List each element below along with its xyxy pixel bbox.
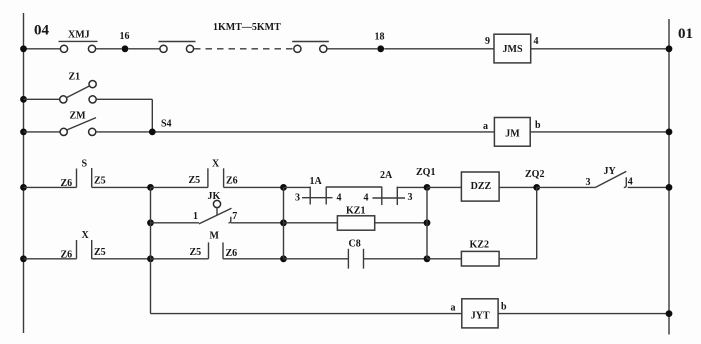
svg-text:16: 16 [120, 31, 130, 42]
svg-text:X: X [212, 159, 220, 170]
wire terminal X2 to junction [92, 258, 151, 260]
switch JK (rotary, pins 1,7) [193, 191, 237, 224]
svg-text:DZZ: DZZ [471, 181, 492, 192]
junction row6 x283 [280, 255, 287, 262]
svg-text:1: 1 [193, 211, 198, 222]
svg-text:Z5: Z5 [94, 247, 106, 258]
relay coil JM [494, 118, 530, 147]
wire junction to terminal M [151, 258, 209, 260]
connector 1A (pins 3,4) [295, 176, 342, 205]
wire junction to terminal X [151, 186, 208, 188]
svg-text:X: X [82, 230, 90, 241]
junction right bus row7 [666, 310, 673, 317]
svg-text:S4: S4 [161, 119, 172, 130]
wire dashed between KMT contacts [194, 48, 293, 50]
wire JK to junction [231, 222, 285, 224]
svg-text:b: b [535, 120, 541, 131]
wire vertical x283 rows4-6 [283, 187, 285, 258]
junction left bus row6 [20, 255, 27, 262]
switch ZM (knife switch open) [60, 111, 96, 136]
wire junction to resistor KZ1 [284, 222, 338, 224]
junction left bus row4 [20, 184, 27, 191]
relay coil DZZ [461, 172, 499, 201]
svg-text:S: S [82, 159, 88, 170]
connector 2A (pins 4,3) [364, 170, 413, 205]
wire bridge 1A to 2A [326, 186, 382, 188]
wire 2A to node ZQ1 [397, 186, 427, 188]
wire 5KMT to node 18 [327, 48, 377, 50]
junction left bus row1 [20, 45, 27, 52]
wire row2: bus to Z1 [24, 98, 60, 100]
relay coil JMS [494, 34, 531, 63]
left bus 04 [23, 13, 25, 333]
right bus 01 [668, 19, 670, 335]
pin 9 [485, 36, 490, 47]
svg-text:4: 4 [534, 36, 539, 47]
svg-text:ZQ1: ZQ1 [416, 167, 435, 178]
terminal X2 (Z6/Z5 plug) [61, 230, 106, 261]
junction left bus row2 [20, 96, 27, 103]
wire row3: bus to ZM [24, 131, 61, 133]
relay coil JYT [462, 299, 498, 328]
terminal X (Z5/Z6 plug) [189, 159, 238, 188]
svg-text:JYT: JYT [471, 311, 490, 322]
svg-text:01: 01 [678, 26, 693, 42]
resistor KZ1 [337, 206, 374, 231]
svg-text:KZ2: KZ2 [470, 240, 489, 251]
wire row5: junction to JK [151, 222, 199, 224]
junction row4 x283 [280, 184, 287, 191]
wire KZ2 to corner [499, 258, 537, 260]
wire corner down to S4 [151, 99, 153, 132]
wire JY to right bus [628, 186, 669, 188]
svg-text:Z5: Z5 [190, 247, 202, 258]
svg-text:C8: C8 [349, 239, 361, 250]
svg-text:Z6: Z6 [226, 248, 238, 259]
wire terminal S to junction [92, 186, 151, 188]
terminal M (Z5/Z6 plug) [190, 230, 238, 258]
label node 01 [678, 26, 693, 42]
svg-text:04: 04 [34, 23, 50, 39]
junction right bus row1 [666, 45, 673, 52]
svg-text:XMJ: XMJ [68, 30, 90, 41]
wire junction to connector 1A [284, 186, 311, 188]
svg-text:JY: JY [604, 166, 617, 177]
wire ZM to relay JM [96, 131, 495, 133]
junction row6 x427 [424, 255, 431, 262]
pin b [535, 120, 541, 131]
svg-text:ZQ2: ZQ2 [525, 169, 544, 180]
svg-text:4: 4 [364, 193, 369, 204]
wire C8 to junction [364, 258, 428, 260]
svg-text:2A: 2A [380, 170, 393, 181]
svg-text:JK: JK [208, 191, 221, 202]
junction row5 x150 [147, 219, 154, 226]
contact XMJ (pushbutton, bar over circles) [59, 30, 98, 53]
svg-text:JM: JM [505, 129, 520, 140]
label 1KMT-5KMT [213, 22, 281, 33]
wire node18 to relay JMS [384, 48, 494, 50]
wire row6: bus to terminal X2 [24, 258, 77, 260]
svg-text:1A: 1A [310, 176, 323, 187]
wire JMS to right bus [531, 48, 669, 50]
contact 5KMT [292, 42, 329, 53]
node ZQ1 [416, 167, 435, 191]
wire junction to capacitor C8 [284, 258, 349, 260]
junction row6 x150 [147, 255, 154, 262]
svg-text:KZ1: KZ1 [346, 206, 365, 217]
svg-text:Z6: Z6 [226, 175, 238, 186]
wire KZ1 to junction [375, 222, 427, 224]
switch Z1 (changeover knife) [60, 72, 96, 104]
svg-text:3: 3 [586, 177, 591, 188]
wire vertical x150 rows4-7 [150, 187, 152, 313]
junction right bus row3 [666, 129, 673, 136]
pin 4 [534, 36, 539, 47]
wire ZQ1 to relay DZZ [427, 186, 461, 188]
svg-text:18: 18 [375, 32, 385, 43]
svg-text:4: 4 [337, 193, 342, 204]
wire row7: corner to relay JYT [151, 313, 462, 315]
wire ZQ2 to switch JY [537, 186, 596, 188]
wire junction to resistor KZ2 [427, 258, 461, 260]
svg-text:a: a [451, 302, 456, 313]
wire DZZ to node ZQ2 [499, 186, 537, 188]
node 18 [375, 32, 385, 53]
svg-text:1KMT—5KMT: 1KMT—5KMT [213, 22, 281, 33]
svg-text:Z6: Z6 [61, 250, 73, 261]
svg-text:M: M [210, 230, 220, 241]
node S4 [149, 119, 172, 136]
svg-text:Z6: Z6 [61, 178, 73, 189]
junction row4 x150 [147, 184, 154, 191]
svg-text:JMS: JMS [503, 44, 523, 55]
svg-text:4: 4 [628, 176, 633, 187]
svg-text:7: 7 [232, 211, 237, 222]
wire terminal X to junction [224, 186, 285, 188]
wire JYT to right bus [498, 313, 669, 315]
capacitor C8 [348, 239, 363, 269]
svg-text:Z5: Z5 [94, 176, 106, 187]
wire terminal M to junction [223, 258, 285, 260]
svg-text:3: 3 [295, 193, 300, 204]
svg-text:ZM: ZM [70, 111, 87, 122]
svg-text:Z5: Z5 [189, 175, 201, 186]
switch JY (pins 3,4) [586, 166, 633, 188]
pin a [451, 302, 456, 313]
terminal S (Z6/Z5 plug) [61, 159, 106, 190]
junction row5 x427 [424, 219, 431, 226]
svg-text:b: b [501, 302, 507, 313]
contact 1KMT [159, 42, 196, 53]
pin a [483, 121, 488, 132]
junction row5 x283 [280, 219, 287, 226]
wire XMJ to node 16 [96, 48, 122, 50]
wire row4: bus to terminal S [24, 186, 77, 188]
svg-text:a: a [483, 121, 488, 132]
junction left bus row3 [20, 129, 27, 136]
node ZQ2 [525, 169, 544, 191]
wire Z1 to corner [96, 98, 152, 100]
svg-text:3: 3 [408, 192, 413, 203]
wire row1: bus to XMJ [24, 48, 61, 50]
resistor KZ2 [461, 240, 499, 267]
junction right bus row4 [666, 184, 673, 191]
pin b [501, 302, 507, 313]
wire JM to right bus [530, 131, 669, 133]
label node 04 [34, 23, 50, 39]
svg-text:Z1: Z1 [69, 72, 81, 83]
node 16 [120, 31, 130, 52]
svg-text:9: 9 [485, 36, 490, 47]
wire node16 to 1KMT [129, 48, 161, 50]
wire corner up to ZQ2 [536, 187, 538, 258]
wire vertical x427 rows4-6 [426, 187, 428, 258]
